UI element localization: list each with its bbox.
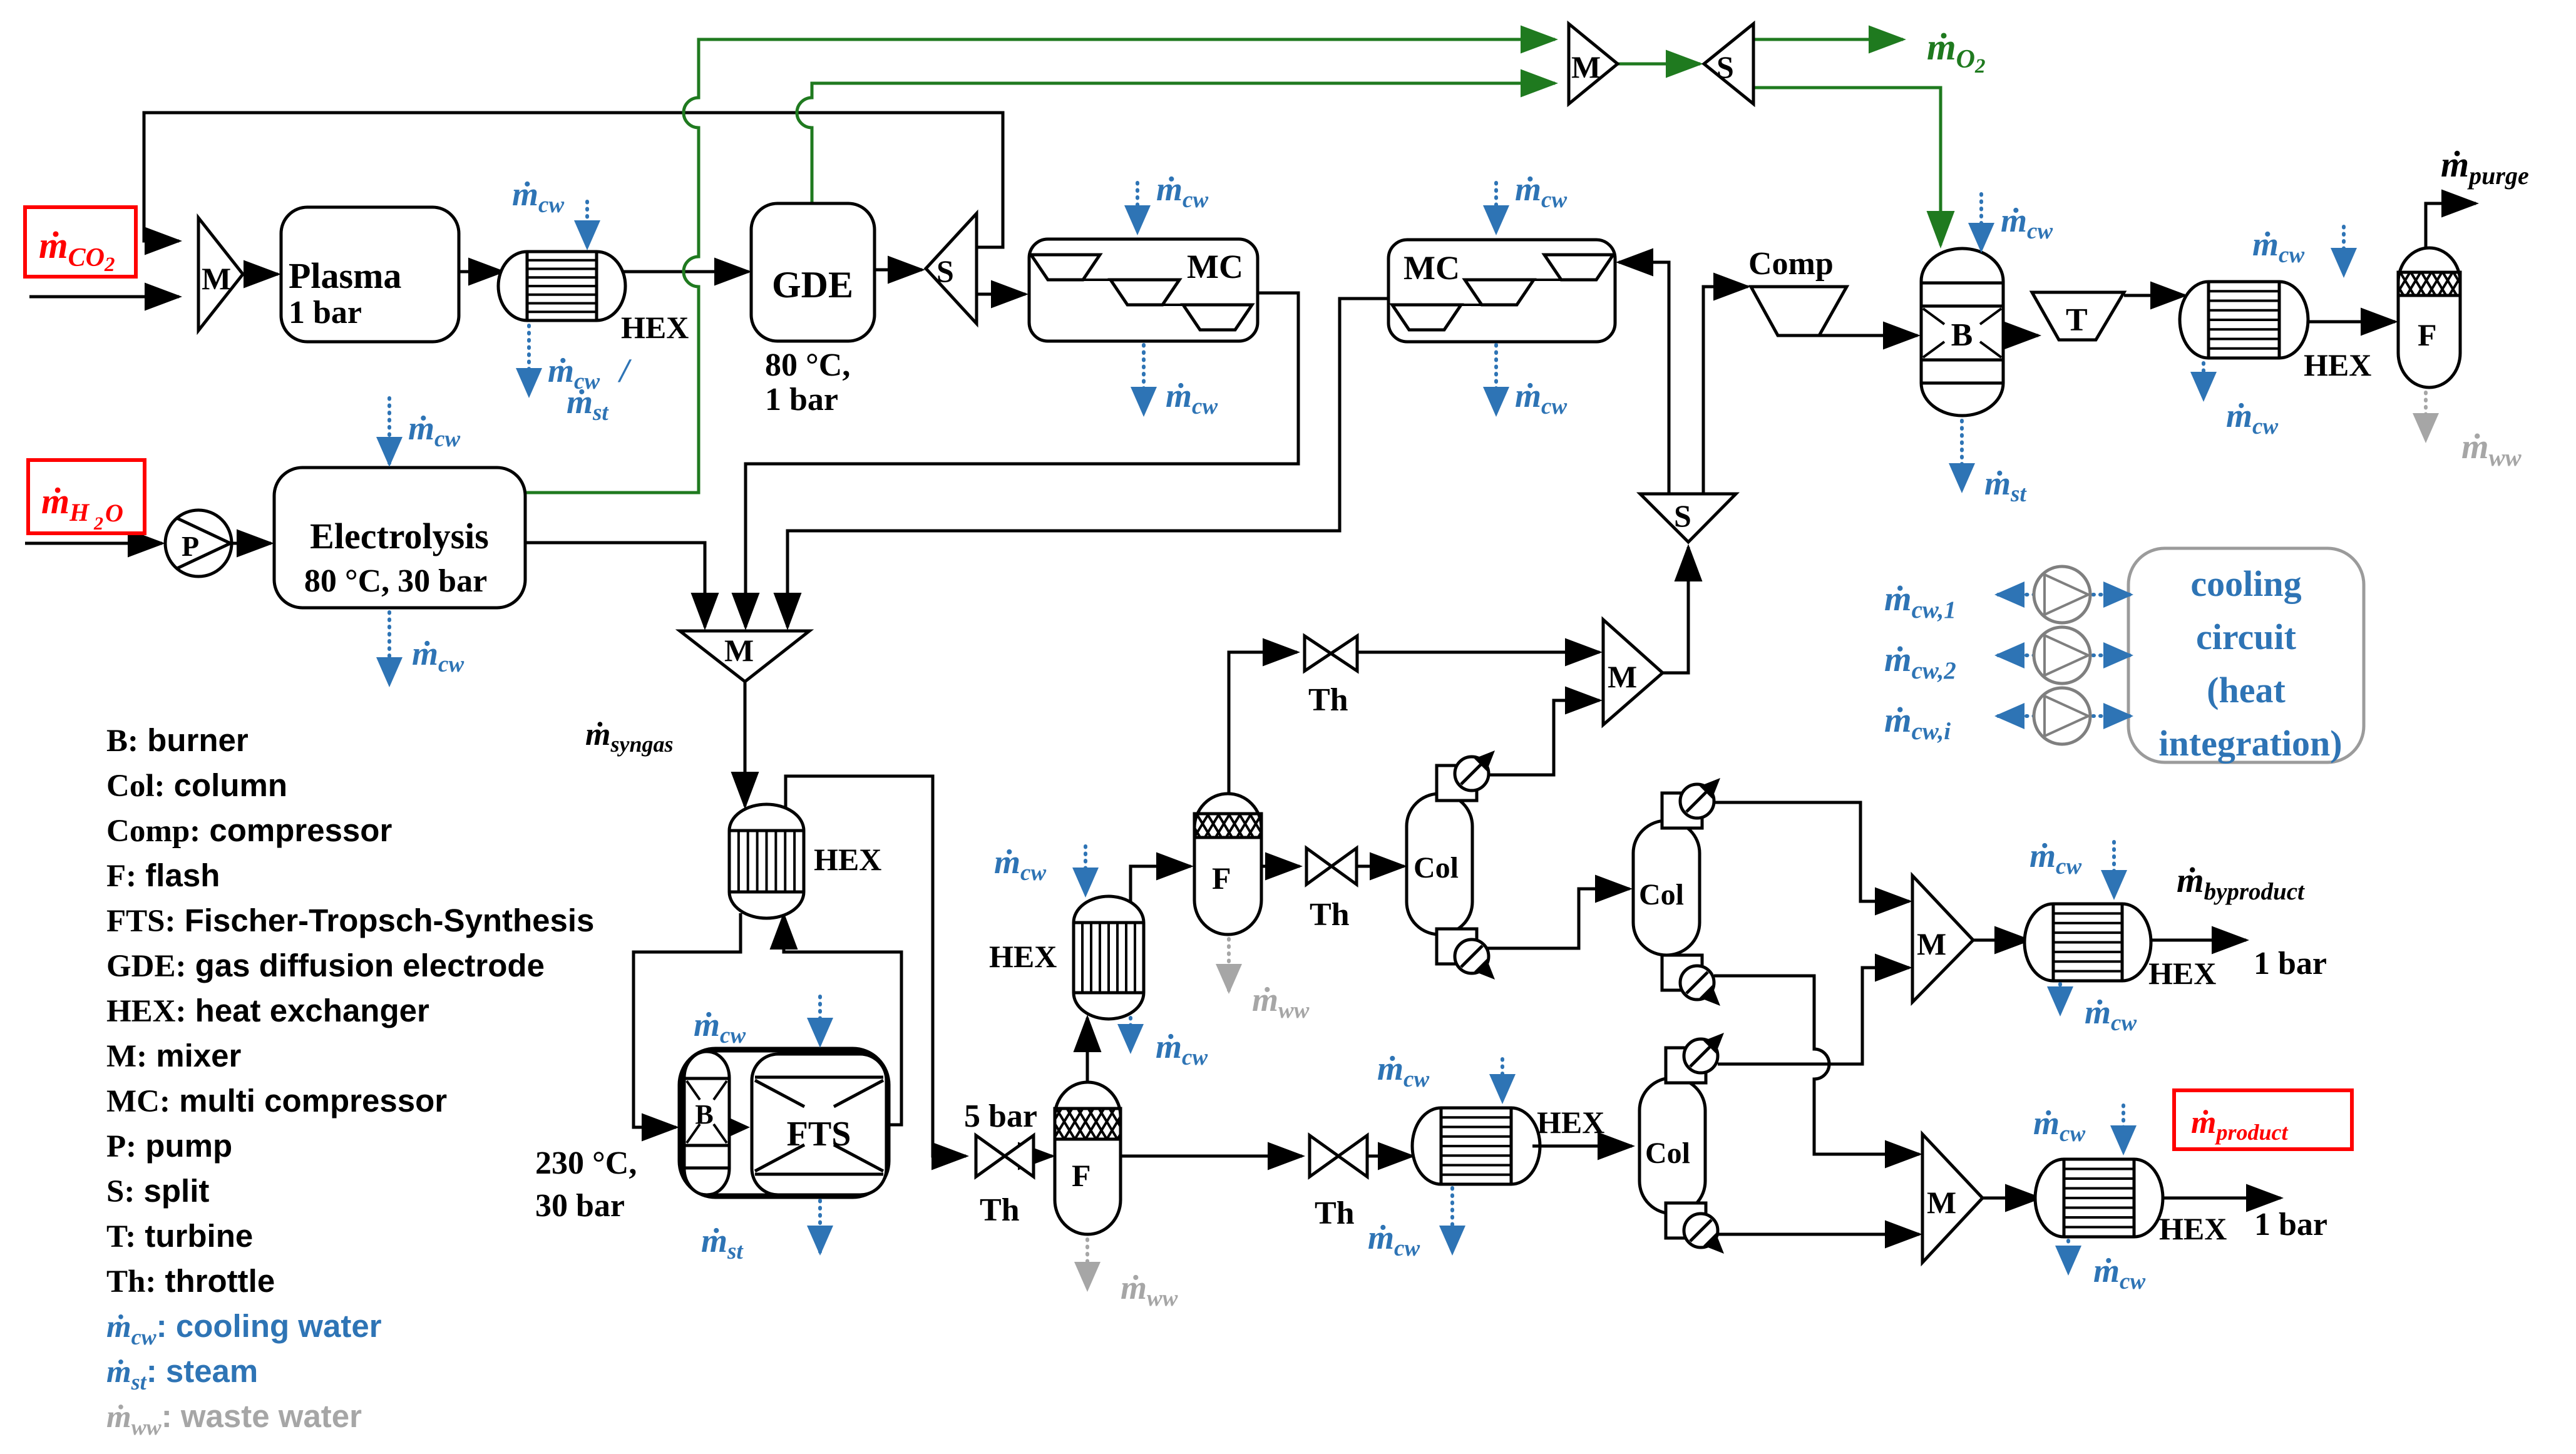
multi compressor MC1 bbox=[1029, 239, 1258, 341]
wire: Col2 condenser overhead down into byproduct mixer M (upper inlet) bbox=[1714, 802, 1909, 901]
svg-text:GDE: gas diffusion electrode: GDE: gas diffusion electrode bbox=[106, 948, 545, 984]
wire: pump P to Electrolysis bbox=[232, 542, 271, 545]
wire: CO2 recycle from split S1 back to mixer M1 (top left) bbox=[144, 113, 1003, 247]
Plasma reactor bbox=[281, 207, 459, 342]
svg-text:S: S bbox=[936, 253, 954, 289]
svg-text:1 bar: 1 bar bbox=[289, 295, 362, 330]
svg-text:M: M bbox=[1927, 1185, 1956, 1220]
cooling water / steam outlet label HEX1 bbox=[529, 325, 632, 426]
pump P bbox=[165, 510, 232, 576]
svg-text:HEX: heat exchanger: HEX: heat exchanger bbox=[106, 993, 429, 1029]
purge stream label m_purge bbox=[2441, 144, 2529, 190]
cooling water outlet HEX4 bbox=[1368, 1188, 1452, 1261]
svg-text:B: burner: B: burner bbox=[106, 722, 249, 759]
svg-text:HEX: HEX bbox=[621, 310, 689, 345]
svg-text:1 bar: 1 bar bbox=[2254, 946, 2327, 981]
wire: Electrolysis H2 outlet into syngas mixer M bbox=[525, 543, 705, 627]
wire: Col1 bottoms via reboiler to column Col2 bbox=[1487, 889, 1629, 948]
wire: flash F1 overhead up into HEX2 bbox=[1086, 1018, 1089, 1082]
cooling water outlet product HEX bbox=[2068, 1241, 2145, 1294]
throttle valve Th before Col1 bbox=[1306, 848, 1357, 933]
wire: purge flash F overhead purge stream bbox=[2426, 203, 2476, 248]
svg-text:GDE: GDE bbox=[772, 264, 853, 305]
column Col1 bbox=[1407, 794, 1472, 934]
red input box m_H2O bbox=[28, 460, 145, 534]
heat exchanger HEX3 before purge flash bbox=[2180, 282, 2371, 382]
svg-text:cooling: cooling bbox=[2190, 563, 2301, 604]
wire: throttle Th to flash F1 bbox=[1034, 1155, 1052, 1158]
svg-text:Electrolysis: Electrolysis bbox=[310, 516, 489, 556]
recycle mixer M (middle) bbox=[1603, 620, 1663, 725]
svg-text:M: M bbox=[724, 633, 754, 668]
wire: burner B outlet to turbine T bbox=[2003, 334, 2038, 337]
wire: top throttle Th to recycle mixer M (middle) bbox=[1357, 651, 1599, 654]
wire: HEX2 outlet to flash F2 bbox=[1131, 866, 1191, 903]
svg-text:FTS: FTS bbox=[787, 1115, 851, 1154]
flash F1 (5 bar) bbox=[1055, 1082, 1121, 1234]
wire: green O2 product stream out of split S bbox=[1753, 38, 1903, 41]
svg-text:80 °C,: 80 °C, bbox=[765, 347, 850, 383]
wire: H2O feed into pump P bbox=[25, 542, 162, 545]
svg-text:5 bar: 5 bar bbox=[964, 1098, 1037, 1134]
svg-text:F: flash: F: flash bbox=[106, 858, 220, 894]
wire: split S right outlet up to compressor Comp bbox=[1703, 287, 1748, 494]
reboiler of Col1 bbox=[1437, 929, 1495, 980]
compressor Comp bbox=[1748, 246, 1847, 335]
cooling water inlet product HEX bbox=[2033, 1104, 2123, 1152]
wire: MC1 outlet recycle down into syngas mixer M bbox=[746, 293, 1298, 627]
multi compressor MC2 bbox=[1388, 240, 1615, 342]
svg-text:230 °C,: 230 °C, bbox=[535, 1145, 637, 1181]
svg-text:2: 2 bbox=[93, 513, 103, 534]
heat exchanger HEX4 before Col3 bbox=[1412, 1105, 1604, 1184]
wire: HEX4 outlet to column Col3 bbox=[1532, 1145, 1632, 1148]
recycle split S (middle, down-pointing) bbox=[1640, 494, 1736, 542]
svg-text:P: pump: P: pump bbox=[106, 1128, 232, 1164]
wire: throttle Th to column Col1 bbox=[1356, 865, 1404, 868]
cooling water outlet Electrolysis bbox=[389, 612, 464, 683]
byproduct mixer M bbox=[1912, 876, 1973, 1002]
wire: product stream out of HEX bbox=[2155, 1197, 2281, 1200]
wire: HEX1 outlet to GDE bbox=[618, 270, 749, 274]
wire: MC2 outlet down into syngas mixer M bbox=[788, 299, 1388, 627]
svg-text:Comp: Comp bbox=[1748, 246, 1834, 282]
svg-text:T: T bbox=[2066, 302, 2088, 338]
wire: Col3 bottoms via reboiler to product mixer M (lower inlet) bbox=[1718, 1233, 1919, 1236]
turbine T bbox=[2032, 292, 2124, 340]
svg-text:Th: Th bbox=[1308, 682, 1348, 718]
GDE gas diffusion electrode reactor bbox=[751, 203, 875, 417]
wire: green O2 line from GDE top up to O2 mixer M (jumps recycle line) bbox=[797, 83, 1555, 203]
svg-text:80 °C, 30 bar: 80 °C, 30 bar bbox=[304, 563, 487, 599]
svg-text:Col: Col bbox=[1414, 851, 1459, 884]
svg-text:S: S bbox=[1716, 49, 1734, 84]
svg-text:Th: throttle: Th: throttle bbox=[106, 1263, 275, 1299]
svg-text:Th: Th bbox=[980, 1192, 1020, 1228]
Electrolysis unit bbox=[274, 468, 525, 608]
wire: HEX3 outlet to purge flash F bbox=[2301, 320, 2395, 324]
svg-text:M: M bbox=[202, 261, 231, 296]
svg-text:circuit: circuit bbox=[2196, 617, 2297, 657]
FTS operating conditions label bbox=[535, 1145, 637, 1224]
wire: burner B to FTS reactor (internal) bbox=[728, 1117, 750, 1137]
syngas stream label m_syngas bbox=[585, 717, 673, 757]
top throttle valve Th (recycle) bbox=[1305, 636, 1357, 718]
wire: turbine T outlet to HEX3 bbox=[2124, 294, 2185, 297]
burner B inside FTS unit bbox=[684, 1052, 729, 1195]
svg-text:HEX: HEX bbox=[1537, 1105, 1604, 1140]
svg-text:Th: Th bbox=[1310, 897, 1350, 933]
wire: Col1 condenser overhead to recycle mixer M (middle) bbox=[1489, 700, 1599, 775]
svg-text:B: B bbox=[695, 1099, 713, 1130]
svg-text:ṁst: steam: ṁst: steam bbox=[106, 1353, 258, 1395]
svg-text:F: F bbox=[1072, 1158, 1091, 1193]
svg-text:T: turbine: T: turbine bbox=[106, 1218, 253, 1254]
wire: byproduct stream out of HEX bbox=[2143, 939, 2246, 942]
svg-text:S: S bbox=[1674, 498, 1691, 533]
split S1 after GDE bbox=[926, 213, 977, 324]
cooling water inlet HEX3 bbox=[2252, 225, 2344, 274]
wire: Plasma outlet to HEX1 bbox=[459, 270, 503, 274]
svg-text:1 bar: 1 bar bbox=[765, 382, 838, 417]
cooling water inlet HEX2 bbox=[994, 843, 1085, 894]
reboiler of Col2 bbox=[1662, 955, 1720, 1006]
burner B vessel bbox=[1921, 248, 2003, 416]
svg-text:HEX: HEX bbox=[989, 939, 1057, 974]
cooling water inlet Electrolysis bbox=[389, 398, 460, 463]
cooling water inlet label HEX1 bbox=[512, 175, 587, 247]
legend entry m_cw cooling water bbox=[106, 1308, 382, 1349]
svg-text:S: split: S: split bbox=[106, 1173, 209, 1209]
wire: syngas HEX outlet down-left into burner B of FTS unit bbox=[634, 913, 741, 1127]
svg-text:HEX: HEX bbox=[814, 842, 881, 877]
wire: green O2 mixer M to split S bbox=[1618, 63, 1700, 66]
wire: GDE outlet to split S1 bbox=[875, 269, 922, 272]
O2 split S (top right) bbox=[1704, 24, 1753, 104]
wire: byproduct mixer M outlet to HEX (byproduct cooler) bbox=[1973, 939, 2029, 942]
wire: throttle Th to HEX4 bbox=[1367, 1155, 1412, 1158]
svg-text:30 bar: 30 bar bbox=[535, 1188, 625, 1224]
product pressure label bbox=[2254, 1207, 2327, 1242]
svg-text:(heat: (heat bbox=[2207, 670, 2286, 710]
svg-text:Plasma: Plasma bbox=[289, 255, 401, 296]
wire: green O2 from split S down into burner B bbox=[1753, 88, 1941, 245]
syngas heat exchanger HEX (FTS feed/effluent) bbox=[729, 804, 881, 918]
cooling water outlet byproduct HEX bbox=[2060, 984, 2137, 1036]
cooling water inlet MC2 bbox=[1496, 170, 1567, 232]
wire: syngas mixer M outlet down into syngas HEX bbox=[744, 682, 747, 806]
svg-text:Th: Th bbox=[1315, 1195, 1355, 1231]
condenser of Col2 bbox=[1662, 778, 1720, 828]
cooling water outlet MC1 bbox=[1144, 345, 1218, 419]
green O2 product label m_O2 bbox=[1927, 26, 1986, 78]
heat exchanger HEX1 after Plasma bbox=[498, 252, 689, 345]
condenser of Col3 bbox=[1666, 1033, 1724, 1083]
wire: Comp outlet to burner B bbox=[1819, 334, 1917, 337]
wire: Col3 condenser overhead up into byproduct mixer M (lower inlet) bbox=[1718, 968, 1909, 1064]
cooling water inlet MC1 bbox=[1137, 170, 1208, 232]
flash F2 bbox=[1194, 794, 1261, 934]
svg-text:1 bar: 1 bar bbox=[2254, 1207, 2327, 1242]
cooling circuit pump 1 with double arrow and label m_cw1 bbox=[1884, 566, 2130, 623]
cooling water outlet HEX3 bbox=[2204, 363, 2278, 439]
svg-text:HEX: HEX bbox=[2159, 1211, 2227, 1246]
heat exchanger HEX2 (vertical) bbox=[989, 896, 1144, 1019]
wire: FTS product up into syngas HEX (preheat) bbox=[784, 915, 901, 1125]
svg-text:P: P bbox=[182, 530, 199, 562]
svg-text:MC: MC bbox=[1403, 249, 1460, 287]
wire: flash F1 bottoms to throttle Th before HEX4 bbox=[1121, 1155, 1302, 1158]
wire: fresh CO2 feed into mixer M1 bbox=[29, 295, 179, 299]
wire: product mixer M outlet to HEX (product cooler) bbox=[1983, 1197, 2040, 1200]
legend entry m_ww waste water bbox=[106, 1398, 362, 1440]
cooling circuit pump 2 with double arrow and label m_cw2 bbox=[1884, 627, 2130, 684]
legend text block (component abbreviations) bbox=[106, 722, 594, 1299]
cooling water inlet burner B bbox=[1981, 194, 2053, 249]
wire: green O2 line from Electrolysis up and across to O2 mixer M (jumps two black lines) bbox=[525, 39, 1555, 493]
svg-text:MC: MC bbox=[1187, 248, 1243, 285]
svg-text:M: mixer: M: mixer bbox=[106, 1038, 242, 1074]
svg-text:Col: Col bbox=[1639, 878, 1684, 911]
svg-text:M: M bbox=[1917, 926, 1946, 961]
O2 mixer M (top right) bbox=[1569, 24, 1618, 104]
byproduct stream label bbox=[2177, 861, 2327, 981]
svg-text:Col: column: Col: column bbox=[106, 767, 287, 804]
svg-text:Comp: compressor: Comp: compressor bbox=[106, 812, 392, 849]
steam outlet burner B bbox=[1962, 421, 2027, 507]
svg-text:MC: multi compressor: MC: multi compressor bbox=[106, 1083, 447, 1119]
FTS reactor unit with burner B (outer shell) bbox=[680, 1050, 888, 1196]
steam outlet FTS bbox=[701, 1201, 820, 1264]
svg-text:F: F bbox=[2418, 317, 2437, 352]
cooling circuit pump i with double arrow and label m_cwi bbox=[1884, 688, 2130, 745]
svg-text:FTS: Fischer-Tropsch-Synthesis: FTS: Fischer-Tropsch-Synthesis bbox=[106, 903, 594, 939]
throttle valve Th before HEX4 bbox=[1310, 1135, 1367, 1231]
svg-text:F: F bbox=[1212, 861, 1231, 896]
wire: syngas HEX hot outlet to 5 bar throttle Th bbox=[786, 776, 966, 1156]
cooling water inlet HEX4 bbox=[1377, 1050, 1502, 1100]
svg-text:M: M bbox=[1608, 659, 1637, 694]
red product box m_product bbox=[2174, 1090, 2352, 1149]
waste water outlet flash F2 bbox=[1229, 939, 1310, 1023]
reboiler of Col3 bbox=[1666, 1203, 1724, 1254]
svg-text:HEX: HEX bbox=[2304, 347, 2371, 382]
purge flash F bbox=[2398, 248, 2460, 387]
svg-text:B: B bbox=[1951, 317, 1973, 353]
cooling water inlet byproduct HEX bbox=[2029, 837, 2114, 896]
heat exchanger HEX byproduct cooler bbox=[2024, 904, 2216, 991]
red input box m_CO2 bbox=[25, 207, 136, 277]
wire: recycle mixer M outlet up into split S (middle) bbox=[1663, 547, 1688, 673]
waste water outlet purge flash bbox=[2426, 392, 2522, 471]
syngas mixer M (down-pointing) bbox=[680, 631, 809, 682]
mixer M1 (CO2 feed mixer) bbox=[198, 218, 243, 330]
wire: flash F2 overhead to top throttle Th bbox=[1229, 652, 1297, 794]
cooling water outlet MC2 bbox=[1496, 345, 1567, 419]
svg-text:integration): integration) bbox=[2158, 723, 2342, 764]
wire: Col2 bottoms via reboiler down to product mixer M (upper inlet), jumps Col3 overhead line bbox=[1714, 976, 1919, 1154]
column Col3 bbox=[1640, 1078, 1705, 1214]
legend entry m_st steam bbox=[106, 1353, 258, 1395]
condenser of Col1 bbox=[1437, 750, 1495, 801]
svg-text:O: O bbox=[105, 499, 123, 527]
cooling circuit box (heat integration) bbox=[2128, 548, 2364, 764]
wire: split S left outlet up to MC2 inlet bbox=[1619, 262, 1669, 494]
wire: flash F2 bottoms to throttle Th before Col1 bbox=[1261, 865, 1300, 868]
wire: split S1 lower outlet to multi compressor MC1 bbox=[977, 293, 1025, 296]
FTS Fischer-Tropsch reactor bbox=[752, 1054, 886, 1195]
svg-text:Col: Col bbox=[1645, 1137, 1690, 1170]
heat exchanger HEX product cooler bbox=[2035, 1159, 2227, 1246]
product mixer M bbox=[1922, 1134, 1983, 1262]
column Col2 bbox=[1633, 821, 1700, 955]
svg-text:M: M bbox=[1571, 49, 1601, 84]
waste water outlet flash F1 bbox=[1087, 1239, 1178, 1311]
cooling water inlet FTS bbox=[694, 996, 820, 1048]
cooling water outlet HEX2 bbox=[1131, 1018, 1208, 1070]
svg-text:HEX: HEX bbox=[2148, 956, 2216, 991]
wire: mixer M1 outlet to Plasma bbox=[243, 273, 278, 276]
throttle valve Th at 5 bar bbox=[964, 1098, 1037, 1228]
